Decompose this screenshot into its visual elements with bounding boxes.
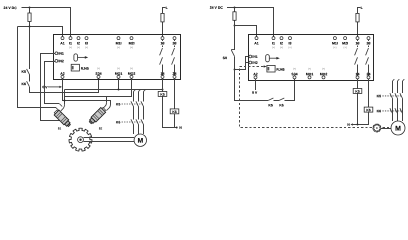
svg-text:I3: I3 <box>289 41 292 45</box>
wire MO1 drop <box>118 78 120 89</box>
svg-text:I1: I1 <box>69 41 72 45</box>
relay coil K6 right <box>364 107 373 112</box>
gear wheel <box>69 128 92 151</box>
wire 24V rail right <box>227 8 273 37</box>
emergency stop S0 <box>234 26 236 50</box>
device U1 box <box>54 35 181 80</box>
terminal M1I <box>117 37 120 40</box>
svg-text:A1: A1 <box>254 41 259 45</box>
connector RJ45 <box>71 64 79 71</box>
svg-text:I2: I2 <box>280 41 283 45</box>
svg-text:RJ45: RJ45 <box>81 67 89 71</box>
svg-text:(+): (+) <box>308 67 311 71</box>
sensor B1 <box>53 109 72 128</box>
svg-text:K5: K5 <box>377 94 382 98</box>
three-phase lines right <box>392 81 394 121</box>
terminal I2 <box>77 37 80 40</box>
svg-text:K6: K6 <box>377 109 382 113</box>
relay contact 13-14 <box>162 40 164 48</box>
svg-text:0 V: 0 V <box>252 91 258 95</box>
svg-text:MO2: MO2 <box>128 72 136 76</box>
terminal I2 right <box>280 37 283 40</box>
fuse F1 <box>29 8 31 27</box>
svg-text:(+): (+) <box>69 45 72 49</box>
wire 14 to K5 coil right <box>357 79 359 89</box>
svg-text:S0: S0 <box>223 56 227 60</box>
svg-text:24: 24 <box>173 72 177 76</box>
net N label right <box>350 123 353 125</box>
svg-text:B2: B2 <box>99 126 103 130</box>
motor M left <box>134 134 146 146</box>
wire MO2 branch <box>65 78 132 96</box>
wire fused 24V to A1 <box>18 27 63 37</box>
terminal I3 right <box>289 37 292 40</box>
svg-text:K6: K6 <box>22 82 27 86</box>
svg-text:(+): (+) <box>117 66 120 70</box>
selector switch <box>74 54 78 61</box>
input IN1 <box>55 52 58 55</box>
svg-text:RJ45: RJ45 <box>276 68 284 72</box>
wire 0V arrow <box>48 86 60 88</box>
svg-text:24: 24 <box>367 72 371 76</box>
svg-text:MO1: MO1 <box>115 72 123 76</box>
contactor contacts K5 main right <box>390 93 403 98</box>
terminal 24 right bottom <box>367 76 370 79</box>
svg-text:IN2: IN2 <box>252 61 258 65</box>
junction fuse output <box>29 26 31 28</box>
svg-text:K5: K5 <box>268 103 273 107</box>
wire 24 to K6 coil <box>174 78 176 109</box>
wire 14 feedback rail <box>65 89 163 91</box>
svg-text:(+): (+) <box>280 45 283 49</box>
wire A2 to sensor B2 <box>63 78 111 104</box>
junction 24V/fuse <box>29 7 31 9</box>
svg-text:S34: S34 <box>291 72 297 76</box>
svg-text:I2: I2 <box>77 41 80 45</box>
svg-text:MO1: MO1 <box>306 72 314 76</box>
terminal 13 <box>161 37 164 40</box>
contact K6 feedback <box>29 75 31 82</box>
terminal I3 <box>85 37 88 40</box>
svg-text:K6: K6 <box>116 120 121 124</box>
junction A2 branch <box>64 100 66 102</box>
svg-text:A2: A2 <box>60 72 65 76</box>
svg-text:(+): (+) <box>333 45 336 49</box>
svg-text:I3: I3 <box>85 41 88 45</box>
svg-text:K5: K5 <box>355 90 360 94</box>
wire feedback to S34 <box>30 78 99 92</box>
wire IN1 to sensor B1 <box>41 54 60 121</box>
relay contact 23-24 right <box>368 40 370 48</box>
terminal MO1 bottom <box>117 75 120 78</box>
wire 24 to K6 coil right <box>368 79 370 107</box>
contactor contacts K6 main right <box>390 108 403 113</box>
svg-text:(+): (+) <box>77 45 80 49</box>
svg-text:0 V: 0 V <box>42 85 48 89</box>
junction N <box>176 127 178 129</box>
terminal 14 bottom <box>161 75 164 78</box>
svg-text:M1I: M1I <box>116 41 122 45</box>
svg-text:14: 14 <box>356 72 360 76</box>
svg-text:IN2: IN2 <box>58 59 64 63</box>
fuse F2 <box>163 8 166 37</box>
svg-text:M1I: M1I <box>332 41 338 45</box>
terminal A1 <box>61 37 64 40</box>
input IN2 <box>55 60 58 63</box>
dashed data link to RJ45 <box>240 66 264 68</box>
sensor B2 <box>88 106 107 125</box>
relay coil K5 right <box>353 89 362 94</box>
terminal M2I <box>130 37 133 40</box>
svg-text:(+): (+) <box>130 66 133 70</box>
junction fuse output right <box>234 25 236 27</box>
terminal A2 bottom <box>61 75 64 78</box>
svg-text:24 V DC: 24 V DC <box>210 6 224 10</box>
svg-text:(+): (+) <box>272 45 275 49</box>
contactor contacts K6 main <box>131 119 144 124</box>
svg-text:M: M <box>395 126 401 133</box>
gear wheel right <box>373 124 381 132</box>
svg-text:M2I: M2I <box>129 41 135 45</box>
svg-text:K6: K6 <box>172 110 177 114</box>
terminal MO2 right bottom <box>322 76 325 79</box>
wire fused 24V to A1 right <box>235 26 257 37</box>
wire S0 to IN1/IN2 <box>235 57 249 70</box>
wire 14 to K5 coil <box>162 78 164 91</box>
terminal S34 bottom <box>97 75 100 78</box>
terminal 23 right <box>367 37 370 40</box>
terminal 13 right <box>356 37 359 40</box>
wire IN2 to sensor B1 <box>45 62 60 104</box>
relay coil K5 <box>158 92 167 97</box>
junction S0 branch <box>234 69 236 71</box>
svg-text:K5: K5 <box>22 70 27 74</box>
terminal S34 right bottom <box>293 76 296 79</box>
wire 24V rail <box>22 8 71 37</box>
relay contact 13-14 right <box>357 40 359 48</box>
terminal A1 right <box>255 37 258 40</box>
device U2 box <box>249 35 374 81</box>
svg-text:K5: K5 <box>116 102 121 106</box>
input IN2 right <box>249 61 252 64</box>
svg-text:K6: K6 <box>279 103 284 107</box>
terminal 23 <box>173 37 176 40</box>
svg-text:(+): (+) <box>343 45 346 49</box>
svg-text:IN1: IN1 <box>252 55 258 59</box>
contact K5 feedback right <box>268 98 273 101</box>
contact K6 feedback right <box>279 98 284 101</box>
fuse F4 <box>358 8 361 37</box>
wire branch to sensor B1 <box>64 97 66 105</box>
shaft right <box>380 128 391 130</box>
svg-text:K5: K5 <box>160 93 165 97</box>
input IN1 right <box>249 55 252 58</box>
connector RJ45 right <box>267 65 275 72</box>
svg-text:I1: I1 <box>272 41 275 45</box>
terminal I1 <box>69 37 72 40</box>
contactor contacts K5 main <box>131 101 144 106</box>
contact K5 feedback <box>29 27 31 70</box>
svg-text:(+): (+) <box>97 66 100 70</box>
lead into sensor B1 <box>56 108 59 111</box>
svg-text:M2I: M2I <box>342 41 348 45</box>
svg-text:S34: S34 <box>95 72 101 76</box>
svg-text:(+): (+) <box>130 45 133 49</box>
wire feedback chain right <box>235 70 269 101</box>
junction 14 <box>162 89 164 91</box>
terminal 24 bottom <box>173 75 176 78</box>
svg-text:24 V DC: 24 V DC <box>3 6 17 10</box>
svg-text:M: M <box>137 138 143 145</box>
svg-text:A1: A1 <box>60 41 65 45</box>
terminal 14 right bottom <box>356 76 359 79</box>
terminal M1I right <box>333 37 336 40</box>
three-phase lines <box>133 92 135 134</box>
svg-text:14: 14 <box>161 72 165 76</box>
junction N right <box>357 124 359 126</box>
svg-text:IN1: IN1 <box>58 52 64 56</box>
wire A2 to 0V right <box>255 79 257 90</box>
terminal I1 right <box>272 37 275 40</box>
svg-text:(+): (+) <box>322 67 325 71</box>
relay contact 23-24 <box>174 40 176 48</box>
svg-text:B1: B1 <box>58 126 62 130</box>
relay coil K6 <box>170 109 179 114</box>
motor M right <box>391 121 405 135</box>
terminal M2I right <box>344 37 347 40</box>
junction MO1 <box>118 89 120 91</box>
dashed machine boundary <box>240 69 390 128</box>
svg-text:MO2: MO2 <box>320 72 328 76</box>
svg-text:(+): (+) <box>288 45 291 49</box>
terminal A2 right bottom <box>254 76 257 79</box>
fuse F3 <box>234 8 236 26</box>
wire 24V sensor supply <box>18 27 56 108</box>
svg-text:(+): (+) <box>117 45 120 49</box>
svg-text:(+): (+) <box>85 45 88 49</box>
junction 24V/fuse right <box>234 7 236 9</box>
terminal MO1 right bottom <box>308 76 311 79</box>
svg-text:K6: K6 <box>366 108 371 112</box>
wire sensor B2 drop A <box>106 97 108 103</box>
svg-text:A2: A2 <box>253 72 258 76</box>
svg-text:(+): (+) <box>293 67 296 71</box>
selector switch right <box>266 55 270 62</box>
shaft <box>83 138 134 142</box>
terminal MO2 bottom <box>130 75 133 78</box>
